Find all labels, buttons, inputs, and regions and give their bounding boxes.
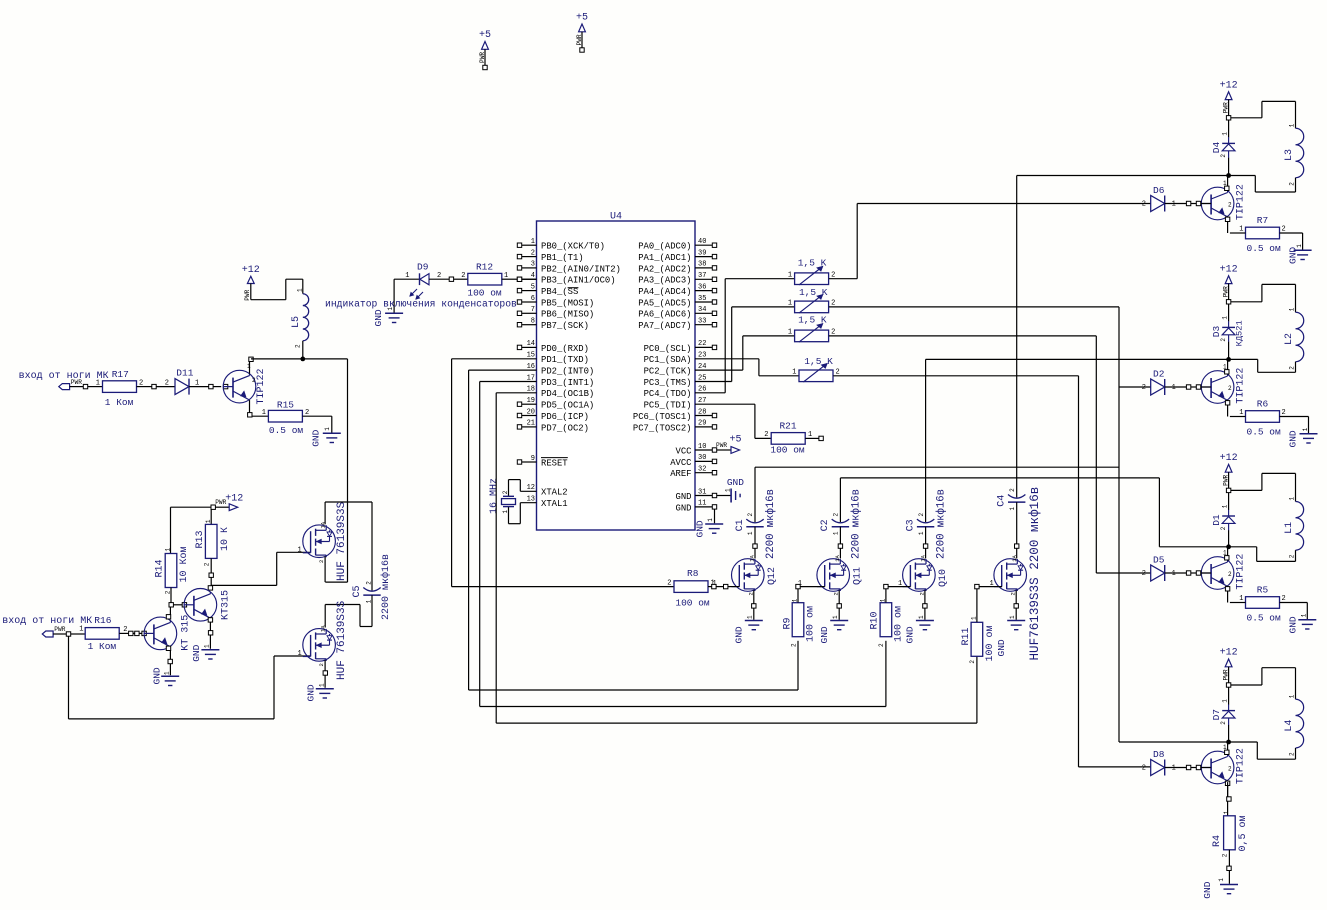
svg-text:2: 2 — [1289, 752, 1296, 756]
IC U4 pin 10 VCC — [695, 449, 712, 451]
pad R14 node — [169, 603, 173, 607]
svg-text:R21: R21 — [779, 421, 796, 432]
pad TIP ch1 emitter — [1225, 217, 1229, 221]
svg-text:2: 2 — [295, 344, 302, 348]
svg-text:R4: R4 — [1212, 835, 1223, 847]
svg-text:30: 30 — [698, 454, 706, 462]
pad R13 out — [209, 573, 213, 577]
svg-text:GND: GND — [1202, 881, 1213, 898]
ground at Q13 — [1007, 620, 1025, 622]
wire TIP ch4 collector — [1227, 742, 1229, 755]
capacitor C2 — [832, 519, 849, 523]
svg-text:1: 1 — [747, 531, 754, 535]
svg-text:21: 21 — [527, 420, 535, 428]
wire Q10 source to GND — [924, 590, 926, 620]
resistor R13 — [205, 524, 217, 558]
wire +12 loop to L1 — [1231, 489, 1262, 491]
svg-text:1: 1 — [1301, 613, 1308, 617]
svg-text:PA7_(ADC7): PA7_(ADC7) — [638, 321, 691, 331]
svg-text:1: 1 — [1009, 507, 1016, 511]
wire port to R16 — [71, 633, 85, 635]
svg-text:1: 1 — [324, 427, 331, 431]
svg-text:PD7_(OC2): PD7_(OC2) — [541, 423, 589, 433]
svg-text:33: 33 — [698, 318, 706, 326]
wire C2 to Q11 — [839, 527, 841, 544]
svg-text:+12: +12 — [1220, 265, 1238, 276]
wire C4 to Q13 — [1016, 502, 1018, 544]
IC U4 pin 36 PA4_(ADC4) — [695, 290, 712, 292]
svg-text:D8: D8 — [1153, 749, 1165, 760]
svg-text:1: 1 — [1302, 427, 1309, 431]
IC U4 pin 23 PC1_(SDA) — [694, 358, 697, 360]
svg-text:1: 1 — [405, 272, 409, 280]
resistor R7 — [1246, 227, 1280, 239]
svg-text:34: 34 — [698, 306, 706, 314]
svg-text:R12: R12 — [476, 261, 493, 272]
pad KT315 Q2 emitter wire — [168, 659, 172, 663]
wire R11 to Q13 gate — [976, 589, 978, 622]
IC U4 pin 1 PB0_(XCK/T0) — [522, 244, 537, 246]
IC U4 pin 17 PD3_(INT1) — [535, 381, 538, 383]
svg-text:GND: GND — [373, 309, 384, 326]
IC U4 pin 24 PC2_(TCK) — [694, 369, 697, 371]
wire feedback R16 to HUF2 gate — [68, 636, 70, 719]
resistor R8 — [674, 581, 708, 593]
svg-text:+5: +5 — [729, 435, 741, 446]
pad TIP122 Q1 emitter — [248, 413, 252, 417]
svg-text:R6: R6 — [1257, 399, 1269, 410]
pad KT315 Q3 emitter wire — [208, 631, 212, 635]
svg-text:2: 2 — [318, 663, 325, 666]
IC U4 pin 30 AVCC — [695, 460, 712, 462]
IC U4 pin 35 PA5_(ADC5) — [695, 301, 712, 303]
wire HUF2 source to GND — [324, 660, 326, 688]
svg-text:TIP122: TIP122 — [1236, 184, 1247, 220]
svg-text:+12: +12 — [1220, 648, 1238, 659]
svg-text:C2: C2 — [820, 519, 831, 531]
power +12 channel 4 — [1225, 659, 1232, 667]
wire KT315 Q2 collector — [169, 607, 171, 619]
pad D5 out — [1186, 571, 1190, 575]
svg-text:22: 22 — [698, 340, 706, 348]
svg-text:R13: R13 — [195, 530, 206, 548]
svg-text:L5: L5 — [291, 316, 302, 328]
wire L1 to node — [1295, 550, 1297, 561]
svg-text:PB1_(T1): PB1_(T1) — [541, 253, 584, 263]
wire HUF1 source — [324, 556, 326, 582]
port вход row1 — [59, 384, 70, 390]
wire D8 to base — [1165, 767, 1187, 769]
svg-text:10 К: 10 К — [220, 527, 231, 551]
svg-text:100 ом: 100 ом — [893, 606, 904, 642]
pad C3 out — [923, 544, 927, 548]
svg-text:PD6_(ICP): PD6_(ICP) — [541, 412, 589, 422]
wire TIP ch1 collector — [1227, 176, 1229, 191]
svg-text:2: 2 — [531, 249, 535, 257]
svg-text:R16: R16 — [94, 615, 111, 626]
svg-text:1: 1 — [1009, 615, 1016, 619]
svg-text:1: 1 — [788, 300, 792, 308]
potentiometer 1.5K #1 — [795, 273, 829, 285]
svg-text:7: 7 — [531, 306, 535, 314]
capacitor C4 — [1008, 495, 1025, 499]
resistor R10 — [880, 603, 892, 637]
svg-text:GND: GND — [1288, 616, 1299, 633]
IC U4 pin 14 PD0_(RXD) — [522, 346, 537, 348]
wire emitter to R15 — [252, 415, 268, 417]
inductor L3 — [1296, 128, 1304, 177]
svg-text:19: 19 — [527, 397, 535, 405]
svg-text:1: 1 — [1218, 878, 1225, 882]
ground at pin11 — [714, 509, 716, 523]
pad Q13 source — [1014, 604, 1018, 608]
svg-text:36: 36 — [698, 283, 706, 291]
svg-text:PC4_(TDO): PC4_(TDO) — [644, 389, 692, 399]
ground at Q10 — [916, 620, 934, 622]
wire L2 to node — [1295, 362, 1297, 373]
potentiometer 1.5K #4 — [799, 370, 833, 382]
transistor TIP122 channel 2 — [1201, 371, 1234, 404]
svg-text:C3: C3 — [905, 519, 916, 531]
IC U4 pin 26 PC4_(TDO) — [694, 392, 697, 394]
pad R8 out a — [712, 584, 716, 588]
svg-text:2: 2 — [1220, 338, 1227, 342]
svg-text:PWR: PWR — [716, 442, 727, 449]
svg-text:C5: C5 — [352, 585, 363, 597]
svg-text:D6: D6 — [1153, 185, 1165, 196]
wire C2 vertical — [839, 478, 841, 522]
wire D2 to base — [1165, 386, 1187, 388]
diode D1 — [1228, 493, 1230, 510]
svg-text:GND: GND — [676, 503, 692, 513]
wire R12 to pin4 — [502, 278, 517, 280]
wire D9 anode to GND — [394, 278, 419, 280]
resistor R14 — [165, 554, 177, 588]
IC U4 pin 2 PB1_(T1) — [522, 256, 537, 258]
IC U4 pin 21 PD7_(OC2) — [522, 426, 537, 428]
power +12 (L5 branch) — [247, 276, 254, 283]
svg-text:GND: GND — [905, 626, 916, 643]
svg-text:1: 1 — [1222, 132, 1229, 136]
svg-text:PC1_(SDA): PC1_(SDA) — [644, 355, 692, 365]
junction channel 4 node — [1226, 740, 1231, 745]
svg-text:1: 1 — [1222, 316, 1229, 320]
diode D7 — [1228, 687, 1230, 704]
svg-text:40: 40 — [698, 238, 706, 246]
svg-text:1: 1 — [195, 379, 199, 387]
capacitor C3 — [917, 519, 934, 523]
wire R14 to node — [170, 588, 172, 603]
wire TIP122 Q1 collector — [249, 362, 251, 374]
svg-text:1,5 K: 1,5 K — [798, 315, 827, 326]
svg-text:1: 1 — [502, 510, 509, 514]
pad TIP ch2 collector — [1225, 370, 1229, 374]
svg-text:PD5_(OC1A): PD5_(OC1A) — [541, 401, 594, 411]
pad HUF2 source — [323, 671, 327, 675]
svg-text:6: 6 — [531, 295, 535, 303]
wire C5 to HUF2 drain — [371, 595, 373, 626]
wire channel 1 collector node — [1017, 175, 1256, 177]
svg-text:1: 1 — [788, 329, 792, 337]
svg-text:1: 1 — [1223, 810, 1230, 814]
diode D2 — [1151, 379, 1165, 395]
svg-text:AVCC: AVCC — [670, 458, 691, 468]
svg-text:1: 1 — [297, 288, 304, 292]
svg-text:R9: R9 — [782, 617, 793, 629]
pad C1 out — [753, 544, 757, 548]
svg-text:0.5 ом: 0.5 ом — [1247, 427, 1282, 438]
svg-text:1: 1 — [1289, 497, 1296, 501]
wire TIP ch1 emitter to R7 — [1230, 232, 1246, 234]
svg-text:37: 37 — [698, 272, 706, 280]
resistor R4 — [1224, 816, 1236, 850]
svg-text:PD0_(RXD): PD0_(RXD) — [541, 344, 589, 354]
pad D6 out — [1186, 201, 1190, 205]
pad D2 out — [1186, 385, 1190, 389]
svg-text:1A: 1A — [834, 554, 841, 561]
svg-text:RESET: RESET — [541, 458, 568, 468]
svg-text:U4: U4 — [610, 212, 622, 223]
power +12 channel 1 — [1225, 92, 1232, 100]
junction L5 node — [300, 357, 305, 362]
pad R10 top — [884, 584, 888, 588]
svg-text:GND: GND — [694, 520, 705, 537]
svg-text:14: 14 — [527, 340, 535, 348]
transistor Q12 — [732, 559, 765, 592]
svg-text:1: 1 — [318, 683, 325, 687]
svg-text:1,5 K: 1,5 K — [799, 287, 828, 298]
pad TIP ch2 base — [1196, 385, 1200, 389]
svg-text:GND: GND — [734, 626, 745, 643]
pad Q12 source — [752, 604, 756, 608]
wire R17 to D11 — [137, 386, 152, 388]
svg-text:PWR: PWR — [215, 499, 226, 506]
svg-text:1: 1 — [1296, 244, 1303, 248]
svg-text:2: 2 — [764, 431, 768, 439]
svg-text:0.5 ом: 0.5 ом — [1247, 243, 1282, 254]
wire pot2 to D2 — [1119, 386, 1151, 388]
ground at Q12 — [745, 620, 763, 622]
wire R10 to Q10 gate — [885, 589, 887, 603]
diode D3 — [1228, 304, 1230, 321]
IC U4 pin 28 PC6_(TOSC1) — [695, 415, 712, 417]
pad base TIP122 q1 — [223, 384, 227, 388]
svg-text:C4: C4 — [997, 495, 1008, 507]
pad TIP ch4 base — [1196, 765, 1200, 769]
svg-text:2200 мкф16в: 2200 мкф16в — [849, 489, 862, 559]
svg-text:GND: GND — [1288, 247, 1299, 264]
svg-text:5: 5 — [531, 283, 535, 291]
svg-text:1A: 1A — [1011, 554, 1018, 561]
pad D9-R12 — [449, 277, 453, 281]
svg-text:2: 2 — [667, 579, 671, 587]
wire TIP ch4 emitter — [1227, 780, 1229, 797]
svg-text:2: 2 — [318, 560, 325, 563]
wire PC1 to pot4 — [695, 358, 759, 360]
svg-text:2: 2 — [1289, 366, 1296, 370]
svg-text:1: 1 — [1289, 307, 1296, 311]
pad KT315 Q2 collector — [166, 615, 170, 619]
svg-text:2: 2 — [878, 643, 885, 647]
svg-text:L2: L2 — [1284, 333, 1295, 345]
wire +12 loop to L4 — [1231, 684, 1262, 686]
svg-text:PB4_(SS: PB4_(SS — [541, 287, 578, 297]
pad ch4 emitter wire — [1227, 797, 1231, 801]
capacitor C5 — [363, 588, 380, 592]
svg-text:1: 1 — [833, 531, 840, 535]
diode D11 — [175, 379, 189, 395]
pad R16 out a — [129, 631, 133, 635]
power +5 (top right) — [579, 24, 586, 32]
pad TIP ch3 collector — [1225, 556, 1229, 560]
wire PD4 to R11 — [496, 392, 536, 394]
ground channel 3 — [1298, 619, 1316, 621]
svg-text:KT 315: KT 315 — [181, 615, 192, 651]
svg-text:1: 1 — [531, 238, 535, 246]
IC U4 pin 40 PA0_(ADC0) — [695, 244, 712, 246]
wire pot1 to D6 — [829, 278, 857, 280]
svg-text:GND: GND — [676, 492, 692, 502]
IC U4 pin 25 PC3_(TMS) — [694, 381, 697, 383]
svg-text:1: 1 — [1172, 570, 1176, 578]
svg-text:PB2_(AIN0/INT2): PB2_(AIN0/INT2) — [541, 264, 621, 274]
svg-text:1: 1 — [1222, 504, 1229, 508]
svg-text:HUF76139S3S 2200 мкф16в: HUF76139S3S 2200 мкф16в — [1028, 487, 1042, 661]
wire R4 to GND — [1228, 850, 1230, 884]
wire C3 to channel2 node — [925, 359, 927, 522]
pad R9 top — [796, 584, 800, 588]
wire channel 2 collector node — [926, 358, 1258, 360]
svg-text:L1: L1 — [1284, 522, 1295, 534]
wire TIP ch2 emitter to R6 — [1230, 416, 1246, 418]
wire node down to HUF1 source — [347, 359, 349, 582]
svg-text:2200 мкф16в: 2200 мкф16в — [764, 489, 777, 559]
svg-text:1: 1 — [262, 409, 266, 417]
svg-text:R8: R8 — [687, 568, 699, 579]
wire C4 to channel1 node — [1016, 176, 1018, 498]
wire C3 to Q10 — [925, 527, 927, 544]
resistor R6 — [1246, 411, 1280, 423]
inductor L1 — [1296, 502, 1304, 551]
ground at KT315 Q3 — [201, 649, 219, 651]
svg-text:3: 3 — [531, 261, 535, 269]
svg-text:20: 20 — [527, 408, 535, 416]
ground at Q11 — [830, 620, 848, 622]
ground channel 4 — [1220, 884, 1238, 886]
svg-text:Q11: Q11 — [853, 567, 864, 585]
wire TIP ch3 emitter — [1227, 586, 1229, 603]
ground at HUF2 — [316, 688, 334, 690]
IC U4 pin 6 PB5_(MOSI) — [522, 301, 537, 303]
svg-text:2: 2 — [918, 513, 925, 517]
svg-text:2: 2 — [1220, 721, 1227, 725]
transistor KT315 Q3 — [184, 589, 217, 622]
wire L4 to node — [1295, 748, 1297, 759]
svg-text:PWR: PWR — [1222, 286, 1229, 297]
svg-text:9: 9 — [531, 455, 535, 463]
ground at KT315 Q2 — [161, 675, 179, 677]
svg-text:32: 32 — [698, 466, 706, 474]
potentiometer 1.5K #3 — [795, 330, 829, 342]
pad TIP ch2 emitter — [1225, 401, 1229, 405]
wire PC3 to pot2 — [695, 381, 732, 383]
svg-text:+5: +5 — [479, 30, 491, 41]
wire D11 to Q base — [189, 386, 209, 388]
transistor TIP122 channel 4 — [1201, 751, 1234, 784]
pad R11 top — [975, 584, 979, 588]
svg-text:VCC: VCC — [676, 446, 692, 456]
power +5 (top left) — [482, 42, 489, 50]
wire PC4 to pot1 — [695, 392, 725, 394]
svg-text:Q10: Q10 — [938, 569, 949, 587]
svg-text:1: 1 — [204, 644, 211, 648]
wire PD3 to R10 — [480, 381, 537, 383]
wire TIP ch1 emitter — [1227, 216, 1229, 233]
wire pot2 net vertical — [829, 306, 1119, 308]
svg-text:PC3_(TMS): PC3_(TMS) — [644, 378, 692, 388]
svg-text:+5: +5 — [576, 13, 588, 24]
svg-text:PA0_(ADC0): PA0_(ADC0) — [638, 242, 691, 252]
power +12 (lower left) — [211, 505, 215, 509]
wire +12 loop to L2 — [1231, 301, 1262, 303]
svg-text:D2: D2 — [1153, 369, 1165, 380]
svg-text:2: 2 — [1220, 526, 1227, 530]
svg-text:R5: R5 — [1257, 585, 1269, 596]
pad TIP ch3 emitter — [1225, 587, 1229, 591]
diode D8 — [1151, 760, 1165, 776]
svg-text:PWR: PWR — [479, 52, 486, 63]
pad R12-pin4 — [517, 277, 521, 281]
crystal X1 16 MHz body — [503, 495, 514, 497]
pad R4 out — [1227, 866, 1231, 870]
svg-text:PD3_(INT1): PD3_(INT1) — [541, 378, 594, 388]
svg-text:1: 1 — [918, 615, 925, 619]
svg-text:D11: D11 — [176, 367, 193, 378]
pad R21 out — [819, 436, 823, 440]
resistor R5 — [1246, 597, 1280, 609]
svg-text:R14: R14 — [154, 559, 165, 577]
svg-text:100 ом: 100 ом — [805, 606, 816, 642]
wire channel 3 collector node — [1159, 546, 1256, 548]
svg-text:PA3_(ADC3): PA3_(ADC3) — [638, 276, 691, 286]
svg-text:10: 10 — [698, 443, 706, 451]
svg-text:D9: D9 — [417, 262, 429, 273]
svg-text:100 ом: 100 ом — [675, 598, 710, 609]
svg-text:D3: D3 — [1211, 325, 1222, 337]
svg-text:GND: GND — [996, 639, 1007, 656]
svg-text:PWR: PWR — [1222, 102, 1229, 113]
wire +12 to L5 — [250, 284, 252, 300]
svg-text:2: 2 — [790, 643, 797, 647]
svg-text:PB0_(XCK/T0): PB0_(XCK/T0) — [541, 242, 605, 252]
svg-text:31: 31 — [698, 488, 706, 496]
pad R17-D11 — [152, 384, 156, 388]
svg-text:39: 39 — [698, 249, 706, 257]
svg-text:PB3_(AIN1/OC0): PB3_(AIN1/OC0) — [541, 276, 616, 286]
wire R6 to GND — [1280, 416, 1309, 418]
wire R5 to GND — [1280, 602, 1308, 604]
resistor R12 — [468, 273, 502, 285]
wire +12 rail to R14 — [171, 506, 212, 508]
IC U4 ATmega body — [537, 221, 696, 530]
IC U4 pin 3 PB2_(AIN0/INT2) — [522, 267, 537, 269]
transistor TIP122 channel 1 — [1201, 187, 1234, 220]
svg-text:КД521: КД521 — [1235, 320, 1245, 346]
pad TIP ch1 collector — [1225, 186, 1229, 190]
resistor R15 — [268, 410, 302, 422]
wire TIP122 Q1 emitter — [249, 400, 251, 412]
transistor TIP122 channel 3 — [1201, 557, 1234, 590]
